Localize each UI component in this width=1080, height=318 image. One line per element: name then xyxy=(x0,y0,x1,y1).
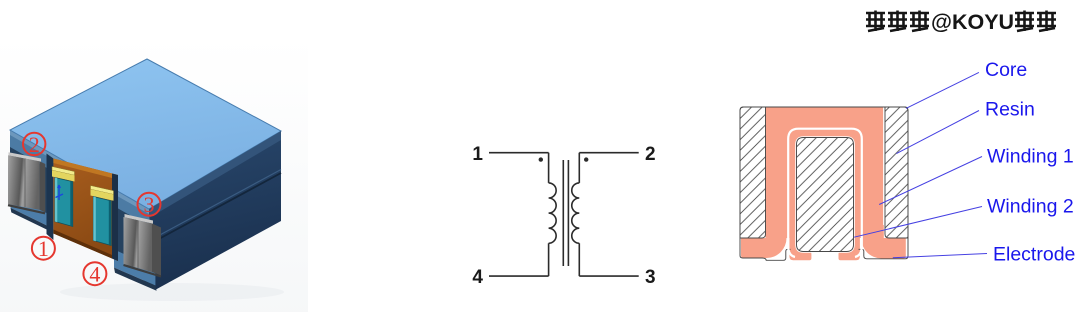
wire pin2 top right xyxy=(579,152,638,154)
right foot wedge xyxy=(114,249,155,285)
core line right xyxy=(567,160,569,266)
winding 1 left lower bend + electrode strip xyxy=(741,225,787,258)
leader line Winding 2 xyxy=(854,207,982,238)
svg-text:2: 2 xyxy=(645,144,656,165)
winding 2 left terminal tab xyxy=(789,225,811,260)
top face xyxy=(10,59,281,209)
package body white fill xyxy=(740,107,908,259)
wire pin3 bottom right xyxy=(579,275,638,277)
blue triad marks on W1 xyxy=(56,185,64,200)
resin white line xyxy=(788,129,862,257)
leader line Core xyxy=(906,72,979,108)
body right-front navy face xyxy=(149,131,281,290)
red circled number 1 xyxy=(32,237,55,260)
package bottom profile left xyxy=(740,234,791,260)
svg-text:Winding 2: Winding 2 xyxy=(987,195,1074,217)
wire left vertical bottom xyxy=(548,243,550,276)
secondary winding coil xyxy=(572,183,580,243)
leader line Resin xyxy=(896,111,979,154)
left metal clip xyxy=(9,152,42,162)
left foot wedge xyxy=(11,195,51,227)
top slab left side band xyxy=(10,130,149,226)
winding 1 right lower bend + electrode strip xyxy=(861,225,906,259)
hanzi yu xyxy=(1037,11,1056,32)
red circled number 4 xyxy=(83,262,106,285)
core left leg xyxy=(740,107,766,238)
right metal clip xyxy=(125,214,154,224)
hanzi sou xyxy=(866,11,885,32)
svg-text:2: 2 xyxy=(29,132,40,157)
primary winding coil xyxy=(549,183,557,243)
core line left xyxy=(562,160,564,266)
winding 2 right terminal tab xyxy=(839,225,860,260)
winding copper main block xyxy=(766,107,884,238)
svg-text:4: 4 xyxy=(472,267,483,288)
polarity dot primary xyxy=(539,157,543,161)
watermark xyxy=(866,11,929,32)
package bottom profile right xyxy=(859,234,909,259)
core right leg xyxy=(885,107,908,238)
wire pin4 bottom left xyxy=(489,275,549,277)
svg-text:4: 4 xyxy=(89,262,100,287)
core center leg xyxy=(797,138,854,252)
wire right vertical bottom xyxy=(578,243,580,276)
svg-text:1: 1 xyxy=(472,144,483,165)
groove on right face xyxy=(151,170,282,241)
svg-text:1: 1 xyxy=(38,236,49,261)
background tint xyxy=(0,36,308,312)
leader line Electrode xyxy=(893,254,987,258)
hanzi hao xyxy=(910,11,929,32)
svg-text:Core: Core xyxy=(985,59,1027,81)
winding W1 (left, teal with yellow cap) xyxy=(52,167,75,176)
svg-text:@KOYU: @KOYU xyxy=(931,10,1014,34)
dark strip left of bobbin xyxy=(47,154,54,241)
slab edge on right face xyxy=(149,131,281,218)
orange bobbin face xyxy=(53,159,118,262)
svg-text:Resin: Resin xyxy=(985,99,1035,121)
svg-text:3: 3 xyxy=(645,267,656,288)
shadow xyxy=(60,283,284,301)
wire left vertical top xyxy=(548,153,550,183)
wire pin1 top left xyxy=(489,152,549,154)
hanzi hu xyxy=(888,11,907,32)
svg-text:Winding 1: Winding 1 xyxy=(987,146,1074,168)
leader line Winding 1 xyxy=(879,157,982,205)
polarity dot secondary xyxy=(584,157,588,161)
svg-text:3: 3 xyxy=(144,192,155,217)
red circled number 3 xyxy=(138,193,161,216)
body left-front navy face xyxy=(10,130,155,289)
red circled number 2 xyxy=(23,133,45,155)
wire right vertical top xyxy=(578,153,580,183)
package top outline xyxy=(740,107,908,236)
winding W2 (right, teal with yellow cap) xyxy=(91,186,114,195)
svg-text:Electrode: Electrode xyxy=(993,243,1075,265)
hanzi guang xyxy=(1015,11,1034,32)
